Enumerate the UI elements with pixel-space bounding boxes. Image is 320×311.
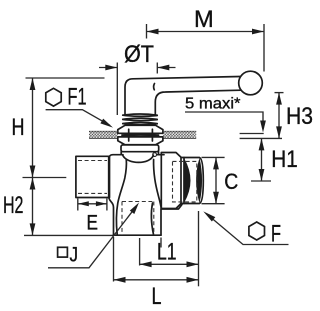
- panel pinch lens between nuts: [122, 134, 159, 136]
- dimension OT: [99, 63, 176, 116]
- dimension M line: [147, 24, 265, 72]
- label 5 maxi* with leader: [185, 96, 266, 133]
- dimension E: [78, 199, 107, 211]
- body left edge: [109, 156, 111, 197]
- svg-text:5 maxi*: 5 maxi*: [185, 96, 241, 113]
- handle ball: [239, 71, 263, 95]
- handle lever: [125, 71, 262, 114]
- svg-text:J: J: [70, 243, 79, 266]
- nut chamfer crescent right: [196, 158, 202, 203]
- svg-text:H1: H1: [271, 146, 298, 173]
- nut chamfer crescent left: [184, 159, 190, 203]
- label F with hex symbol and leader: [203, 211, 288, 247]
- panel nut upper hex: [118, 125, 163, 133]
- panel nut lower hex: [118, 137, 163, 145]
- body interior curtain left: [116, 160, 126, 235]
- dimension C: [202, 157, 225, 203]
- right port hex nut: [181, 158, 203, 204]
- dome end curl: [153, 153, 157, 157]
- dimension L1: [140, 211, 199, 286]
- label F1 with hex symbol: [46, 84, 113, 128]
- body bottom: [113, 234, 161, 236]
- body right edge: [161, 205, 182, 236]
- svg-text:L: L: [152, 283, 162, 310]
- panel edge lines right: [240, 134, 282, 139]
- dimension H2: [24, 178, 113, 236]
- body interior pocket right: [151, 203, 153, 235]
- svg-text:F1: F1: [68, 84, 87, 111]
- svg-text:M: M: [194, 6, 214, 33]
- port to base fillet: [109, 198, 114, 236]
- valve body outline: [110, 153, 183, 235]
- svg-text:C: C: [224, 169, 238, 194]
- svg-text:ØT: ØT: [124, 41, 154, 68]
- left port: [76, 156, 114, 235]
- body interior dashed square: [122, 202, 154, 236]
- body dome arc: [123, 155, 154, 162]
- svg-text:E: E: [86, 212, 98, 235]
- extension stub below body right edge: [160, 238, 162, 248]
- label square J with leader: [48, 203, 139, 268]
- right port dashed bore: [173, 161, 197, 202]
- dimension H1: [251, 138, 271, 181]
- svg-text:F: F: [271, 221, 281, 248]
- dimension L: [114, 237, 199, 283]
- body interior curtain right: [154, 160, 162, 209]
- svg-text:H3: H3: [286, 103, 313, 130]
- neck collar: [120, 152, 122, 155]
- svg-text:H2: H2: [3, 192, 24, 219]
- dimension H3: [275, 93, 284, 139]
- stem threads: [123, 114, 157, 125]
- gland washer: [121, 145, 159, 152]
- dimension H: [23, 78, 105, 178]
- panel hatch right: [163, 131, 196, 138]
- svg-text:L1: L1: [157, 239, 177, 266]
- handle hub arc mark: [153, 84, 156, 90]
- svg-text:H: H: [12, 114, 25, 141]
- right port boss: [161, 153, 181, 209]
- panel hatch left: [89, 131, 118, 138]
